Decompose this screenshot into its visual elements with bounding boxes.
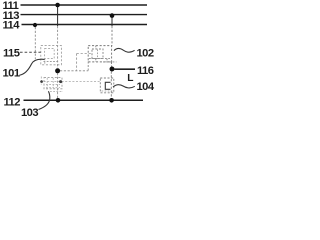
element 103 inner dashed row: [46, 84, 60, 86]
wire: dashed vertical x=76.6 gate feed of right cell: [76, 54, 78, 71]
element 103 extra row: [46, 87, 60, 89]
memory cell 101 outer dashed box: [41, 46, 62, 65]
svg-text:116: 116: [137, 65, 154, 77]
wire: vertical from 113 dot (solid part): [111, 16, 113, 26]
cell 101 inner dashed row: [44, 61, 59, 63]
wire: dashed node line from dot (57.6,70.8) to x=88: [60, 70, 88, 72]
small dot left on gate row: [40, 80, 43, 83]
wire: dashed vertical x=111.5 between right cell and node 116: [111, 62, 113, 67]
element 104 inner row: [102, 90, 114, 92]
wire: dashed vertical x=112 to right cell top: [111, 26, 113, 46]
svg-text:115: 115: [3, 48, 20, 60]
wire: word line 114: [22, 24, 148, 26]
leader 103 (curve): [39, 91, 50, 109]
wire: bit line 113: [21, 14, 148, 16]
svg-text:L: L: [127, 73, 133, 84]
wire: bit line 111: [21, 4, 148, 6]
svg-text:101: 101: [3, 67, 20, 79]
cell 102 inner dashes: [95, 59, 97, 62]
leader 104 (tilde): [113, 85, 135, 88]
svg-text:102: 102: [137, 48, 154, 60]
wire: source line 112: [24, 99, 144, 101]
leader 102 (tilde): [114, 49, 135, 53]
junction dot on 113: [110, 13, 115, 18]
junction dot node 116 (112,69): [110, 67, 115, 72]
wire: dashed vertical x=88.2 up into right cell: [87, 62, 89, 71]
svg-text:104: 104: [137, 81, 155, 93]
junction dot node left (57.6,70.8): [55, 68, 60, 73]
element 104 inner bracket: [105, 82, 110, 89]
svg-text:112: 112: [4, 96, 21, 108]
svg-text:103: 103: [21, 107, 38, 119]
junction dot on 111: [55, 3, 60, 8]
junction dot on 112 right: [109, 98, 114, 103]
element 104 lower-right dashed box: [100, 78, 114, 93]
wire: dashed vertical bit-line drop x=57.6 upper: [57, 26, 59, 68]
cell 102 inner vertical mid: [97, 50, 99, 59]
cell 101 inner dashed box: [45, 49, 55, 59]
junction dot on 112 left: [56, 98, 61, 103]
leader 116 (thick line): [115, 68, 136, 70]
svg-text:114: 114: [3, 20, 21, 32]
wire: dashed gate line into right cell y=53.5: [77, 53, 93, 55]
small dot right on gate row: [59, 80, 62, 83]
element 103 lower dashed row: [50, 90, 63, 92]
memory cell 102 outer dashed box: [88, 46, 111, 62]
wire: vertical from 111 to left cell (solid part): [57, 5, 59, 26]
cell 102 inner dashed box: [92, 49, 103, 59]
leader 115 (dashed): [20, 51, 41, 53]
junction dot on 114: [33, 23, 37, 27]
wire: dashed vertical from 114 dot x=35.3: [34, 27, 36, 59]
cell 101 inner vertical dash: [44, 59, 46, 65]
leader 101 (curve): [20, 59, 45, 75]
cell 102 inner vertical dash top: [95, 46, 97, 49]
element 103 lower-left dashed box: [44, 78, 62, 89]
wire: dashed vertical x=57.6 lower (to line 112): [57, 73, 59, 99]
wire: dashed vertical x=41.3 left-cell gate drop: [40, 77, 42, 85]
wire: dashed lower gate line y=81.6 across both lower boxes: [40, 81, 101, 83]
element 103 inner verticals: [46, 78, 48, 88]
wire: dashed vertical x=111.5 node 116 down to line 112: [110, 72, 112, 99]
